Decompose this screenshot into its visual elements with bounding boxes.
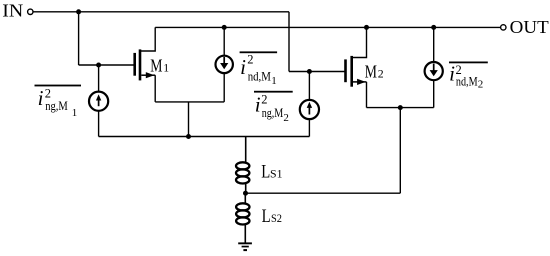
label i2 ng,M1 (35, 85, 82, 119)
wire source node long drop (399, 108, 401, 194)
label i2 nd,M2 (449, 61, 488, 90)
wire M2 gate horizontal (289, 71, 345, 73)
terminal IN (28, 9, 33, 14)
current source i_ng,M1 (89, 92, 108, 111)
svg-text:i: i (240, 55, 246, 79)
junction dot M2 drain on rail2 (364, 25, 369, 30)
wire LS1 bottom stub (245, 183, 247, 193)
wire LS2 top stub (244, 193, 246, 204)
wire source node drop to bus (188, 102, 190, 137)
wire LS1 top stub (245, 137, 247, 163)
wire nd,M2 bottom lead (433, 80, 435, 107)
svg-text:M: M (150, 55, 162, 75)
label i2 ng,M2 (254, 91, 293, 124)
junction dot ng,M2 tap (307, 69, 312, 74)
svg-text:2: 2 (261, 93, 267, 107)
wire LS2 bottom stub (244, 224, 246, 243)
junction dot ng,M1 tap (96, 63, 101, 68)
junction dot nd,M1 on rail2 (222, 25, 227, 30)
wire M1 gate horizontal (79, 64, 134, 66)
junction dot LS node (243, 191, 248, 196)
svg-text:i: i (255, 92, 261, 116)
transistor M2 gate bar (344, 59, 347, 82)
current source i_ng,M2 (300, 100, 319, 119)
wire rail2 drains to OUT (155, 26, 500, 28)
wire nd,M1 top lead (223, 27, 225, 55)
transistor M1 gate bar (133, 53, 136, 76)
ground (238, 242, 252, 251)
wire nd,M2 top lead (433, 27, 435, 62)
svg-text:nd,M: nd,M (456, 74, 478, 88)
svg-text:nd,M: nd,M (248, 70, 271, 84)
wire M1 gate drop (78, 12, 80, 65)
svg-text:2: 2 (283, 112, 289, 124)
wire bus horizontal (99, 136, 310, 138)
label M1 (150, 55, 169, 75)
wire M2 source vertical (366, 82, 368, 108)
svg-text:L: L (262, 206, 271, 227)
junction dot nd,M2 on rail2 (431, 25, 436, 30)
label i2 nd,M1 (240, 51, 278, 86)
label LS2 (262, 206, 282, 227)
svg-text:i: i (449, 61, 455, 85)
svg-text:S2: S2 (271, 211, 282, 225)
transistor M2 channel bar (350, 56, 353, 87)
svg-text:IN: IN (2, 1, 23, 21)
current source i_nd,M2 (425, 62, 443, 80)
inductor LS1 (236, 162, 249, 183)
transistor M1 channel bar (139, 49, 142, 80)
transistor M2 source lead with arrow (353, 79, 367, 85)
transistor M1 drain lead (141, 27, 155, 51)
wire ng,M2 top lead (308, 72, 310, 100)
inductor LS2 (236, 203, 249, 224)
svg-text:S1: S1 (270, 167, 283, 181)
svg-text:2: 2 (378, 66, 384, 80)
terminal OUT (501, 25, 506, 30)
wire ng,M1 bottom lead (98, 111, 100, 136)
wire M2 source to nd,M2 bottom (367, 107, 434, 109)
svg-text:1: 1 (271, 75, 277, 87)
transistor M2 drain lead (353, 27, 367, 57)
svg-text:1: 1 (163, 60, 169, 74)
wire M1 source vertical (154, 75, 156, 102)
current source i_nd,M1 (216, 56, 233, 73)
wire nd,M1 bottom lead (223, 73, 225, 102)
junction dot on bus (186, 134, 191, 139)
svg-text:OUT: OUT (510, 17, 549, 37)
wire rail1 IN (33, 11, 289, 13)
wire ng,M2 bottom lead (308, 120, 310, 137)
svg-text:2: 2 (247, 52, 253, 66)
svg-text:L: L (261, 162, 270, 183)
wire ng,M1 top lead (98, 65, 100, 91)
wire M1 source to nd,M1 bottom (155, 101, 224, 103)
svg-text:ng,M: ng,M (45, 99, 68, 113)
label M2 (365, 61, 384, 81)
transistor M1 source lead with arrow (141, 72, 155, 78)
svg-text:ng,M: ng,M (262, 106, 284, 120)
wire M2 gate drop from IN rail (288, 12, 290, 72)
wire bottom horizontal to LS junction (246, 192, 401, 194)
junction dot on IN rail (76, 9, 81, 14)
svg-text:2: 2 (478, 79, 484, 91)
svg-text:i: i (38, 86, 44, 110)
junction dot M2 source node (398, 105, 403, 110)
label LS1 (261, 162, 282, 183)
svg-text:M: M (365, 61, 377, 81)
svg-text:1: 1 (72, 107, 78, 119)
